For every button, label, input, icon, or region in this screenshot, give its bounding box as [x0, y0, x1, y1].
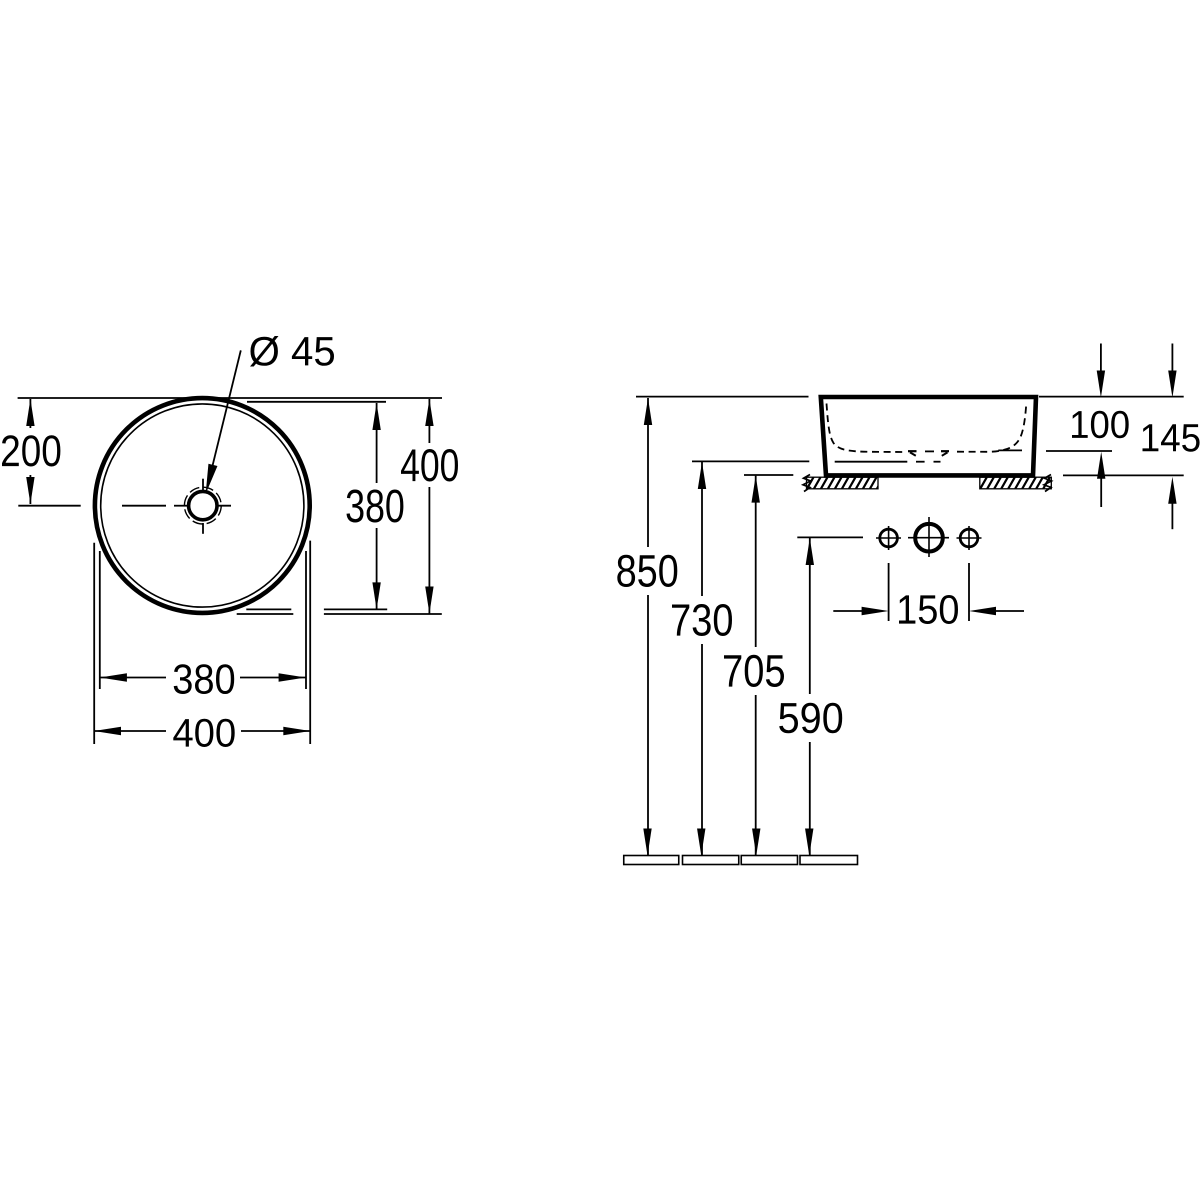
extension line 730	[692, 460, 809, 462]
faucet hole left	[876, 526, 901, 550]
dimension 145	[1168, 344, 1176, 530]
drain section marks	[908, 451, 949, 456]
extension counter right	[1063, 474, 1184, 476]
basin outline	[821, 397, 1036, 475]
dimension 705	[752, 476, 761, 856]
top tangent extension line	[18, 397, 442, 399]
label 400 horizontal	[173, 719, 234, 747]
dimension 200	[26, 399, 34, 504]
dimension 400 horizontal	[94, 727, 310, 735]
label 145	[1143, 424, 1200, 452]
basin top extension line left	[636, 396, 809, 398]
counter hatch right	[973, 475, 1057, 492]
dimension 850	[643, 398, 652, 856]
left extension verticals	[94, 543, 100, 744]
dimension 100	[1097, 344, 1106, 508]
label 730	[672, 604, 732, 636]
horizontal centre line	[18, 505, 231, 507]
label 590	[779, 703, 842, 734]
leader line for diameter 45	[206, 350, 241, 491]
extension line 380 top	[247, 401, 386, 403]
drain hole outer thin circle	[184, 487, 221, 524]
drain hole bold circle	[189, 491, 217, 519]
label 380 vertical	[347, 490, 404, 523]
washbasin inner rim circle	[101, 404, 304, 607]
counter hatch left	[800, 475, 884, 492]
washbasin outer rim circle	[95, 398, 310, 613]
bottom extension line 380	[246, 608, 387, 610]
faucet hole middle	[908, 517, 949, 557]
extension line 705	[744, 474, 793, 476]
label 380 horizontal	[174, 664, 235, 694]
floor tiles	[624, 856, 858, 865]
dimension 590	[805, 538, 814, 856]
label diameter 45	[250, 336, 334, 367]
basin inner dashed bowl	[827, 404, 1027, 453]
label 400 vertical	[401, 449, 458, 482]
label 200	[2, 435, 60, 466]
label 850	[617, 555, 677, 587]
extension line 100 lower	[1046, 450, 1112, 452]
dimension 400 vertical	[425, 399, 433, 614]
right extension verticals	[306, 541, 310, 744]
inner rim line right	[998, 449, 1022, 451]
label 150	[899, 595, 958, 624]
extension line 590	[797, 536, 863, 538]
label 705	[724, 655, 784, 687]
drain hole vertical centre line	[202, 479, 204, 534]
basin top extension line right	[1039, 396, 1184, 398]
dimension 380 vertical	[372, 403, 380, 609]
water line left	[835, 461, 941, 463]
bottom extension line 400	[237, 613, 442, 615]
dimension 150	[833, 563, 1024, 621]
dimension 380 horizontal	[100, 673, 306, 681]
label 100	[1072, 411, 1129, 439]
dimension 730	[697, 462, 706, 856]
faucet hole right	[957, 526, 982, 550]
